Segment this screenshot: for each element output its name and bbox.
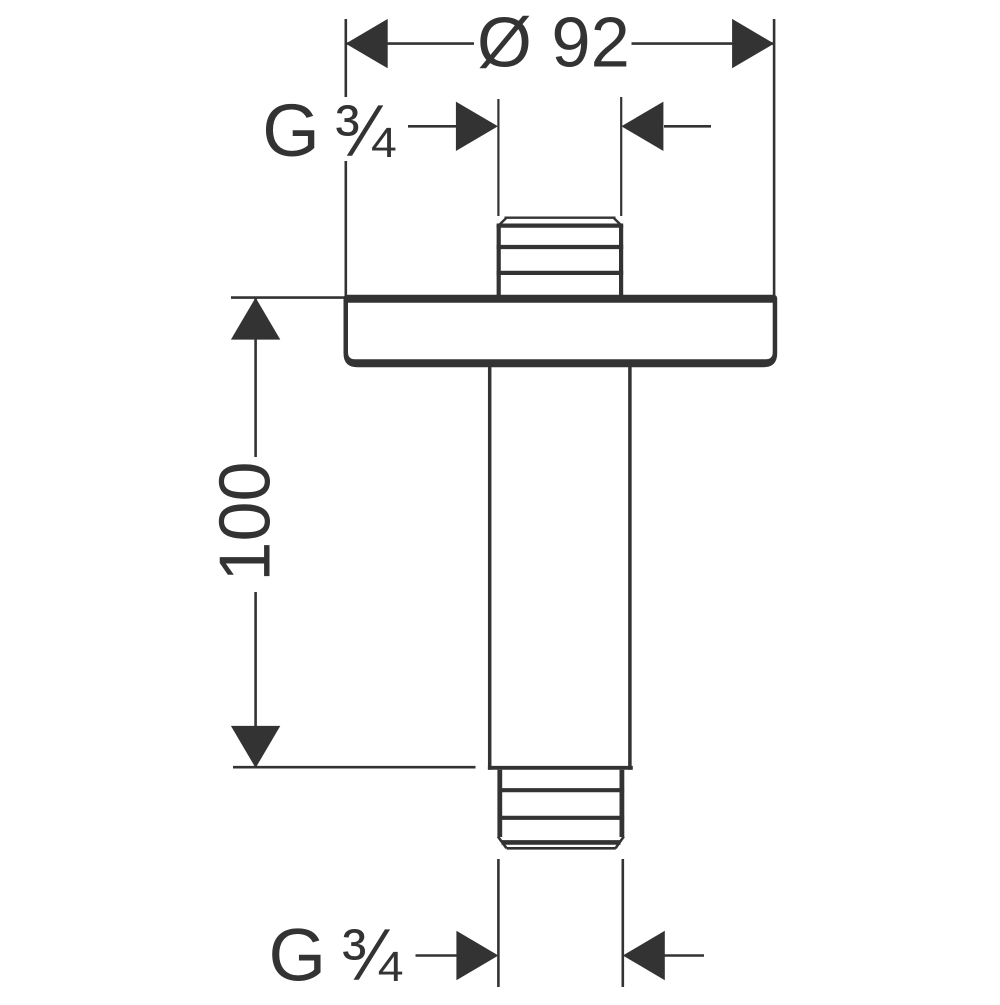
dim G3/4 bottom stub line right [665, 954, 705, 957]
bottom thread chamfer corner left [498, 837, 507, 849]
dim G3/4 bottom extension line right [621, 859, 624, 987]
dim 100 dimension line upper segment [254, 299, 257, 458]
dim 100 arrowhead down [231, 726, 280, 768]
dim G3/4 top stub line left [408, 125, 456, 128]
svg-text:Ø 92: Ø 92 [477, 2, 630, 81]
dim G3/4 top arrowhead right (points left) [621, 102, 663, 151]
flange outer plate [344, 295, 778, 368]
svg-text:100: 100 [205, 461, 285, 581]
dim G3/4 bottom arrowhead right (points left) [623, 931, 665, 980]
top thread crest line 2 [497, 271, 624, 275]
dim D92 arrowhead left [346, 19, 388, 68]
svg-text:G: G [269, 914, 327, 997]
dim G3/4 top extension line right [620, 97, 622, 216]
top thread chamfer corner left [498, 218, 506, 226]
pipe bottom edge [488, 766, 633, 770]
bottom thread chamfer corner right [616, 837, 624, 849]
dim G3/4 bottom arrowhead left (points right) [456, 931, 498, 980]
flange inner face (white) [348, 303, 773, 360]
top thread left edge [497, 225, 501, 297]
dim D92 extension line right [773, 19, 776, 296]
dim G3/4 top arrowhead left (points right) [456, 102, 498, 151]
bottom thread left edge [497, 770, 502, 837]
pipe left edge [488, 367, 492, 770]
bottom thread crest line 2 [498, 816, 624, 820]
dim G3/4 bottom extension line left [497, 859, 500, 987]
top thread top bar [497, 224, 624, 228]
dim 100 extension line bottom [233, 766, 476, 769]
bottom thread right edge [620, 770, 625, 837]
dim D92 arrowhead right [732, 19, 774, 68]
dim D92 extension line left (upper segment) [344, 19, 347, 97]
top thread crest line 1 [497, 245, 624, 249]
dim G3/4 top extension line left [497, 99, 499, 216]
top thread right edge [619, 225, 623, 297]
dim G3/4 top stub line right [664, 125, 711, 128]
dim G3/4 bottom stub line left [416, 954, 458, 957]
dim 100 arrowhead up [231, 298, 280, 340]
svg-text:¾: ¾ [341, 915, 403, 996]
pipe right edge [628, 367, 632, 770]
top thread chamfer top line [505, 216, 616, 218]
dim 100 extension line top [231, 296, 346, 299]
top thread chamfer corner right [614, 218, 622, 226]
dim D92 extension line left (lower segment) [344, 161, 347, 296]
dim D92 dimension line right segment [632, 42, 775, 45]
dim 100 dimension line lower segment [254, 592, 257, 767]
svg-text:¾: ¾ [334, 91, 396, 172]
dim D92 dimension line left segment [346, 42, 474, 45]
bottom thread bottom face line [507, 847, 616, 850]
svg-text:G: G [262, 89, 320, 172]
bottom thread chamfer line [502, 840, 621, 845]
bottom thread crest line 1 [498, 788, 624, 792]
